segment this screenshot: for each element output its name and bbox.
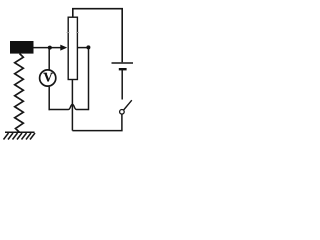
wire: box top up and across to battery bbox=[73, 9, 122, 63]
wire: box bottom down to bottom return (under hop) bbox=[71, 80, 73, 131]
microphone M (carbon block, filled) bbox=[10, 41, 34, 54]
wiper arrow into potentiometer bbox=[60, 45, 67, 51]
faint scan marks on box bbox=[67, 32, 80, 34]
battery B: long plate bbox=[112, 62, 134, 64]
ground bbox=[4, 132, 36, 139]
node A (junction to voltmeter) bbox=[48, 46, 52, 50]
wire: switch down and bottom return bbox=[72, 114, 122, 131]
node B bbox=[86, 45, 90, 49]
wire: node A down to voltmeter bbox=[48, 48, 50, 70]
wire: potentiometer lower terminal to node B bbox=[78, 47, 89, 49]
voltmeter V bbox=[40, 70, 56, 86]
switch contact circle bbox=[120, 110, 125, 115]
resistor R1 (zigzag to ground) bbox=[15, 54, 24, 133]
wire: up from hop wire to node B bbox=[88, 48, 90, 111]
wire: bottom horizontal with crossover hop bbox=[49, 104, 89, 109]
potentiometer P (resistance box) bbox=[68, 17, 77, 79]
wire: battery to switch fixed contact bbox=[121, 70, 123, 100]
wire: microphone to potentiometer wiper bbox=[33, 47, 62, 49]
wire: voltmeter bottom lead bbox=[48, 87, 50, 111]
switch K blade (open) bbox=[124, 100, 132, 110]
battery B: short thick plate bbox=[119, 68, 127, 70]
